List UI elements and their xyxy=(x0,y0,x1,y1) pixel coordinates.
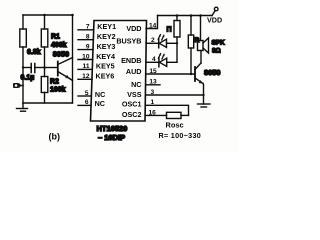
resistor R2 xyxy=(41,68,48,104)
svg-text:KEY5: KEY5 xyxy=(96,62,115,71)
resistor R1 xyxy=(41,15,48,68)
pin 8 KEY2 xyxy=(78,39,93,41)
resistor 6.8k xyxy=(20,29,27,47)
svg-text:ENDB: ENDB xyxy=(121,56,141,65)
pin 13 NC stub xyxy=(146,84,160,86)
capacitor 0.1u xyxy=(23,64,45,73)
wire led column xyxy=(176,43,178,62)
svg-text:KEY2: KEY2 xyxy=(97,32,116,41)
transistor Q2 8050 xyxy=(195,51,204,105)
svg-text:OSC2: OSC2 xyxy=(122,110,142,119)
node emitter ground junction xyxy=(202,94,204,96)
svg-text:AUD: AUD xyxy=(126,67,142,76)
pin 12 KEY6 xyxy=(78,78,92,80)
svg-text:9: 9 xyxy=(86,43,90,50)
wire bottom left xyxy=(23,102,73,104)
svg-text:12: 12 xyxy=(82,73,90,80)
svg-text:HT16520: HT16520 xyxy=(97,124,128,133)
node top-left junction collector xyxy=(71,14,74,17)
pin 7 KEY1 xyxy=(78,29,94,31)
VDD terminal xyxy=(212,7,218,15)
svg-text:R2: R2 xyxy=(50,79,59,86)
wire terminal to column xyxy=(22,85,24,87)
svg-text:– 16DIP: – 16DIP xyxy=(98,133,125,142)
svg-text:Π: Π xyxy=(167,26,172,33)
pin 6 NC xyxy=(78,104,91,106)
pin 3 VSS wire xyxy=(146,94,204,96)
node rail junction a xyxy=(176,14,179,17)
svg-text:VSS: VSS xyxy=(127,90,142,99)
node rail junction c xyxy=(199,14,202,17)
svg-text:400k: 400k xyxy=(51,42,67,49)
node base junction xyxy=(190,73,192,75)
svg-text:10: 10 xyxy=(82,53,90,60)
svg-text:11: 11 xyxy=(83,63,90,70)
svg-text:NC: NC xyxy=(95,90,105,99)
svg-text:100k: 100k xyxy=(50,87,66,94)
svg-text:BUSYB: BUSYB xyxy=(116,37,141,46)
pin 10 KEY4 xyxy=(78,59,93,61)
svg-text:(b): (b) xyxy=(49,132,61,142)
svg-text:8050: 8050 xyxy=(204,68,220,77)
svg-text:8050: 8050 xyxy=(53,49,69,58)
led D1 xyxy=(146,35,177,48)
pin 9 KEY3 xyxy=(78,49,93,51)
svg-text:6: 6 xyxy=(85,99,89,106)
svg-text:SPK: SPK xyxy=(212,40,226,47)
svg-text:0.1µ: 0.1µ xyxy=(21,75,35,82)
svg-text:KEY3: KEY3 xyxy=(97,42,116,51)
svg-text:VDD: VDD xyxy=(207,15,222,24)
led D2 xyxy=(146,54,177,67)
pin 14 VDD stub xyxy=(146,16,158,29)
IC right pin labels xyxy=(116,24,141,119)
wire VDD rail xyxy=(158,15,213,17)
svg-text:VDD: VDD xyxy=(126,24,141,33)
svg-text:8: 8 xyxy=(86,34,90,41)
node cap tee xyxy=(22,66,24,68)
input terminal xyxy=(13,83,22,88)
node rail junction b xyxy=(190,14,193,17)
svg-text:KEY4: KEY4 xyxy=(96,52,115,61)
svg-text:R= 100~330: R= 100~330 xyxy=(159,131,202,140)
node base junction xyxy=(43,66,45,68)
pin 5 NC xyxy=(78,95,91,97)
speaker SPK xyxy=(198,16,209,54)
svg-text:KEY1: KEY1 xyxy=(97,22,116,31)
svg-text:NC: NC xyxy=(95,99,105,108)
transistor Q1 8050 xyxy=(45,15,73,103)
wire left column lower xyxy=(22,47,24,103)
pin 11 KEY5 xyxy=(78,68,92,70)
wire top rail left xyxy=(23,14,73,16)
pin numbers right xyxy=(149,22,158,116)
svg-text:8Ω: 8Ω xyxy=(212,48,221,55)
svg-text:OSC1: OSC1 xyxy=(122,99,142,108)
node top-left junction R1 xyxy=(43,14,46,17)
svg-text:5: 5 xyxy=(85,90,89,97)
svg-text:6.8k: 6.8k xyxy=(27,49,41,56)
ground right xyxy=(198,104,211,107)
resistor R base xyxy=(188,16,193,75)
pin 1 OSC1 wire xyxy=(146,105,189,115)
svg-text:Rosc: Rosc xyxy=(166,120,184,129)
IC left pin labels xyxy=(95,22,116,108)
wire left column vertical xyxy=(22,15,24,29)
op IC U1 HT16520 body xyxy=(91,21,147,122)
resistor Rosc xyxy=(146,112,189,118)
svg-text:R1: R1 xyxy=(51,34,60,41)
svg-text:NC: NC xyxy=(131,80,141,89)
pin 15 AUD wire xyxy=(146,73,195,75)
resistor RL led xyxy=(174,16,180,44)
svg-text:KEY6: KEY6 xyxy=(96,72,115,81)
node led junction xyxy=(176,42,178,44)
pin numbers left xyxy=(82,24,90,107)
svg-text:7: 7 xyxy=(86,24,90,31)
ground left xyxy=(17,103,28,111)
